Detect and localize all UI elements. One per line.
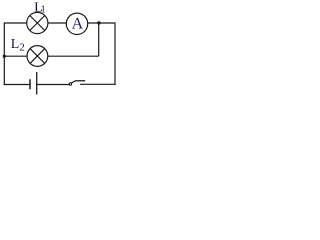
wire from ammeter to top-right corner xyxy=(88,22,115,24)
label L2 xyxy=(11,37,25,53)
battery cell: long positive plate xyxy=(36,72,38,95)
wire top-left from corner to lamp L1 xyxy=(4,22,27,24)
wire from switch contact to bottom-right corner xyxy=(80,83,116,85)
wire bottom-left from corner to battery xyxy=(4,84,30,86)
wire left vertical side xyxy=(3,22,5,85)
label L1 xyxy=(34,1,46,16)
lamp L1 xyxy=(27,12,48,33)
svg-text:1: 1 xyxy=(41,5,46,16)
svg-text:2: 2 xyxy=(19,41,25,53)
wire middle branch left from node to lamp L2 xyxy=(4,55,27,57)
wire middle branch right from lamp L2 to inner vertical xyxy=(48,55,99,57)
svg-text:L: L xyxy=(11,37,20,52)
wire between lamp L1 and ammeter xyxy=(48,22,67,24)
switch S1 pivot xyxy=(69,83,71,85)
wire right vertical side xyxy=(114,22,116,85)
node B junction dot xyxy=(97,21,100,24)
lamp L2 xyxy=(27,46,48,67)
wire from battery to switch xyxy=(37,84,69,86)
ammeter U1 xyxy=(66,13,87,34)
battery cell: short thick negative plate xyxy=(29,79,31,89)
wire inner vertical from node B down to L2 branch xyxy=(98,23,100,56)
node A junction dot on left side xyxy=(3,55,6,58)
svg-text:A: A xyxy=(72,15,84,32)
switch S1 lever xyxy=(72,81,86,83)
